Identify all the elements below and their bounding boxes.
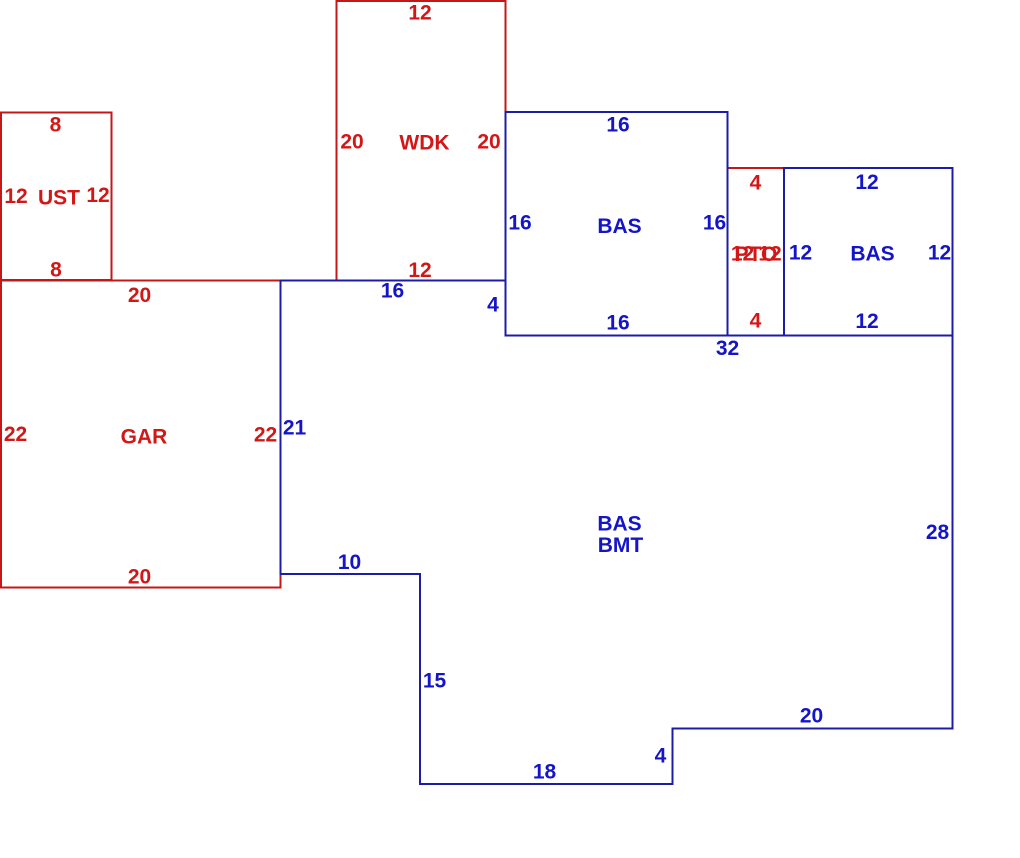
svg-text:WDK: WDK (399, 132, 449, 155)
WDK area outline (337, 1, 506, 281)
svg-text:12: 12 (928, 242, 951, 265)
svg-text:4: 4 (750, 172, 762, 195)
svg-text:21: 21 (283, 417, 307, 440)
svg-text:8: 8 (50, 114, 62, 137)
svg-text:4: 4 (487, 294, 499, 317)
svg-text:22: 22 (4, 423, 27, 446)
svg-text:BAS: BAS (850, 243, 894, 266)
svg-text:22: 22 (254, 424, 277, 447)
svg-text:20: 20 (800, 705, 823, 728)
svg-text:12: 12 (408, 259, 431, 282)
GAR area outline (1, 281, 281, 588)
svg-text:12: 12 (408, 2, 431, 25)
svg-text:20: 20 (340, 131, 363, 154)
svg-text:12: 12 (855, 171, 878, 194)
svg-text:16: 16 (606, 114, 629, 137)
svg-text:15: 15 (423, 670, 447, 693)
svg-text:16: 16 (606, 312, 629, 335)
UST area outline (1, 113, 112, 281)
svg-text:32: 32 (716, 337, 739, 360)
svg-text:20: 20 (128, 284, 151, 307)
BAS/BMT area outline (281, 281, 953, 785)
svg-text:UST: UST (38, 187, 80, 210)
svg-text:16: 16 (703, 212, 726, 235)
svg-text:8: 8 (50, 259, 62, 282)
svg-text:10: 10 (338, 551, 361, 574)
BAS (center) area outline (506, 112, 728, 336)
svg-text:20: 20 (128, 566, 151, 589)
svg-text:BMT: BMT (598, 534, 644, 557)
svg-text:4: 4 (655, 745, 667, 768)
svg-text:18: 18 (533, 761, 557, 784)
svg-text:12: 12 (4, 185, 27, 208)
svg-text:16: 16 (508, 212, 531, 235)
svg-text:12: 12 (789, 242, 812, 265)
svg-text:16: 16 (381, 280, 404, 303)
BAS (right) area outline (784, 168, 953, 336)
PTO area outline (728, 167, 785, 169)
svg-text:20: 20 (477, 131, 500, 154)
svg-text:4: 4 (750, 310, 762, 333)
svg-text:GAR: GAR (121, 426, 168, 449)
svg-text:28: 28 (926, 521, 950, 544)
svg-text:12: 12 (855, 310, 878, 333)
svg-text:12: 12 (86, 184, 109, 207)
svg-text:BAS: BAS (597, 513, 641, 536)
svg-text:12: 12 (758, 243, 781, 266)
svg-text:BAS: BAS (597, 215, 641, 238)
